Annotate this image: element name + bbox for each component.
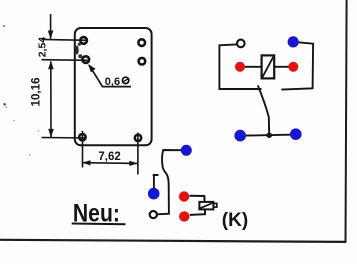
pin dot red R1 (coil left) [235,62,245,72]
coil K2 (small box with slash) [199,202,213,210]
pin dot red R3 (coil2 top) [179,191,189,201]
bottom common wire [246,134,291,137]
arrowhead left (7,62) [82,160,91,165]
dimension line vertical (2,54 / 10,16) [50,14,52,137]
middle schematic: wire from NO pin [157,150,181,214]
pin dot blue B2 (bottom left) [234,130,246,142]
pin dot blue B1 (top right) [288,36,299,47]
extension line to hole H1 [42,38,88,41]
switch lever wire [258,85,269,135]
svg-text:(K): (K) [222,210,248,231]
arrowhead right (7,62) [129,161,138,166]
coil K2 bottom wire [190,209,205,215]
extension line to hole H2 [42,59,88,62]
pin dot red R4 (coil2 bottom) [179,211,189,221]
terminal open circle O1 [237,40,245,48]
coil K2 top wire [190,196,205,202]
NC contact stub wire [153,175,159,189]
relay coil K (box with slash) [262,55,275,78]
border frame bottom edge [0,240,346,242]
dimension line horizontal 7,62 [82,162,138,165]
extension line to hole H5 (left) [42,131,87,168]
arrowhead down at ext line 3 [48,129,54,138]
coil K2 tab [213,203,216,207]
pin dot blue B4 (top) [181,145,192,156]
pin dot red R2 (coil right) [288,62,298,72]
pin hole H5 (bottom-left) [79,134,85,140]
leader line for hole diameter 0,6 [89,65,131,87]
coil wire right [274,66,288,68]
pin dot blue B5 (NC) [148,188,160,200]
svg-text:10,16: 10,16 [30,77,43,107]
schematic: right contact loop wire [281,42,313,89]
pin hole H4 (second-right) [139,58,146,65]
arrowhead up at ext line 2 [48,61,54,70]
schematic: left contact loop wire [219,44,261,89]
svg-text:2,54: 2,54 [37,37,49,58]
arrowhead down at ext line 1 [48,31,54,40]
underline of Neu: [72,223,126,226]
pin hole H6 (bottom-right) [135,135,141,141]
diameter symbol [122,77,128,83]
svg-text:7,62: 7,62 [98,151,120,163]
relay body outline (top view footprint) [75,28,152,145]
junction node [266,132,272,138]
leader arrowhead pointing at hole H2 [88,64,95,72]
ink blob on part edge (scan artifact) [75,45,78,54]
common terminal open circle O2 [150,211,157,218]
extension line through hole H6 [137,133,139,175]
pin hole H3 (top-right) [138,39,145,46]
pin hole H1 (top-left) [80,37,87,44]
pin dot blue B3 (bottom right) [290,128,302,140]
svg-text:0,6: 0,6 [105,76,120,88]
coil wire left [245,66,262,68]
paper specks [3,25,5,27]
border frame right edge [346,0,347,242]
pin hole H2 (second-left) [83,56,90,63]
